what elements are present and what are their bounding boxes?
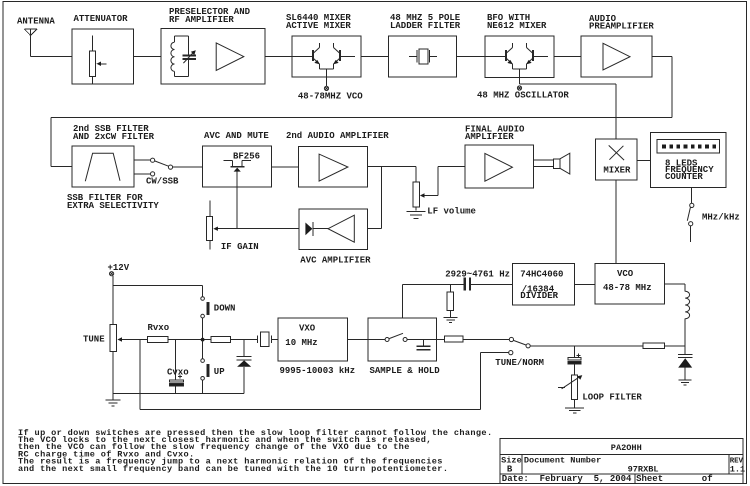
svg-text:VXO: VXO (299, 324, 316, 334)
LED segments 8 dots (662, 144, 716, 148)
svg-text:ACTIVE MIXER: ACTIVE MIXER (286, 21, 351, 31)
svg-text:DOWN: DOWN (214, 304, 236, 314)
capacitor Cvxo electrolytic (170, 375, 184, 394)
svg-text:AMPLIFIER: AMPLIFIER (465, 132, 514, 142)
wire mixer to frequency counter (637, 160, 651, 162)
wire VCO control line (530, 345, 643, 347)
switch S3 DOWN pushbutton (201, 297, 209, 318)
wire SSB filter CW output (134, 159, 150, 161)
wire R7 to TUNE/NORM switch (463, 339, 509, 341)
op-amp A5 triangle final amplifier (485, 153, 513, 181)
potentiometer R2 IF GAIN (206, 201, 237, 250)
2nd SSB filter and 2xCW filter box (72, 146, 134, 187)
varactor D1 (237, 340, 252, 394)
svg-text:Date: February 5, 2004: Date: February 5, 2004 (502, 474, 632, 484)
wire counter to MHz/kHz switch (691, 188, 693, 204)
wire AVC feedback branch (380, 167, 382, 229)
attenuator block box (72, 29, 134, 84)
VXO 10 MHz box (278, 318, 347, 361)
svg-text:B: B (507, 465, 513, 475)
wire 2nd amp output to LF volume (368, 167, 416, 182)
node junction dot UP/DOWN (201, 338, 205, 342)
inductor L1 (685, 291, 689, 318)
AVC amplifier box (299, 209, 368, 249)
svg-text:Rvxo: Rvxo (148, 323, 170, 333)
label 2nd SSB FILTER AND 2xCW FILTER (73, 124, 155, 142)
note text block (18, 428, 492, 474)
op-amp A3 triangle 2nd audio amplifier (319, 154, 348, 181)
svg-text:LOOP FILTER: LOOP FILTER (582, 393, 642, 403)
variable capacitor C-tank in preselector (183, 36, 196, 76)
svg-text:COUNTER: COUNTER (665, 172, 703, 182)
wire divider to VCO (575, 284, 595, 286)
wire BFO to audio preamplifier (554, 56, 581, 58)
svg-text:AVC AMPLIFIER: AVC AMPLIFIER (300, 256, 371, 266)
switch S2 MHz/kHz (687, 203, 694, 242)
48 MHz 5 pole ladder filter box (389, 36, 457, 77)
wire VXO to sample and hold (347, 339, 385, 341)
transistor Q3 left of NE612 pair (506, 43, 513, 69)
svg-text:10 MHz: 10 MHz (285, 338, 317, 348)
label AUDIO PREAMPLIFIER (589, 14, 654, 32)
potentiometer R-att inside attenuator (89, 36, 106, 84)
wire antenna to attenuator (31, 55, 72, 57)
wire SSB filter SSB output (134, 173, 150, 175)
label VXO 10 MHz (285, 324, 317, 349)
svg-text:9995-10003 kHz: 9995-10003 kHz (280, 366, 356, 376)
wire attenuator to preselector (134, 55, 162, 57)
op-amp A4 triangle AVC amplifier (328, 215, 354, 242)
label FINAL AUDIO AMPLIFIER (465, 125, 525, 143)
svg-text:VCO: VCO (617, 269, 634, 279)
switch S6 TUNE/NORM (509, 337, 531, 354)
wire S and H output (436, 339, 444, 341)
wire SL6440 to ladder filter (361, 55, 389, 57)
mixer U2 box (595, 139, 636, 180)
ground below R6 (444, 318, 458, 323)
transistor Q5 BF256 JFET (223, 161, 251, 188)
wire BF256 gate to IF gain (236, 187, 238, 229)
op-amp A1 triangle in preselector (216, 43, 244, 71)
potentiometer R3 LF volume (413, 182, 438, 211)
ground below loop filter (565, 408, 584, 413)
switch S5 sampling inside S and H (385, 333, 407, 341)
svg-text:TUNE/NORM: TUNE/NORM (495, 358, 544, 368)
label 48 MHZ 5 POLE LADDER FILTER (390, 13, 461, 31)
transistor Q4 right of NE612 pair (526, 43, 548, 69)
label BFO WITH NE612 MIXER (487, 13, 547, 31)
sample and hold box (368, 318, 437, 361)
svg-text:48-78MHZ VCO: 48-78MHZ VCO (298, 92, 363, 102)
preselector and RF amplifier box (161, 29, 265, 84)
resistor R5 (211, 337, 231, 343)
node 48-78MHZ VCO connector below SL6440 (324, 86, 328, 90)
divider 74HC4060 box (512, 263, 574, 305)
wire ground rail (113, 393, 244, 395)
wire +12V to DOWN switch (113, 285, 203, 296)
label VCO 48-78 MHz (603, 269, 652, 293)
antenna ANT1 (24, 29, 37, 56)
svg-text:2929~4761 Hz: 2929~4761 Hz (445, 270, 510, 280)
svg-text:MHz/kHz: MHz/kHz (702, 213, 740, 223)
wire ladder filter to BFO mixer (457, 55, 485, 57)
svg-text:LF volume: LF volume (427, 207, 476, 217)
filter response curve in SSB filter (85, 153, 120, 181)
wire emitter tie of SL6440 pair (320, 69, 334, 86)
op-amp A2 triangle in preamplifier (603, 43, 630, 70)
wire oscillator to counter mixer (520, 84, 617, 139)
wire Cvxo branch (175, 340, 177, 380)
switch S4 UP pushbutton (201, 340, 209, 394)
wire DOWN switch to junction (202, 318, 204, 340)
svg-text:NE612 MIXER: NE612 MIXER (487, 21, 547, 31)
svg-text:ANTENNA: ANTENNA (17, 17, 55, 27)
resistor R8 (643, 343, 665, 349)
wire IF gain node to AVC amplifier (237, 228, 299, 230)
wire preamplifier output to SSB filter input (51, 57, 672, 167)
svg-text:SAMPLE & HOLD: SAMPLE & HOLD (370, 366, 441, 376)
wire R8 to varactor node (665, 345, 686, 347)
svg-text:and the next small frequency b: and the next small frequency band can be… (18, 464, 448, 474)
AVC and mute box (203, 146, 272, 187)
svg-text:DIVIDER: DIVIDER (520, 291, 558, 301)
audio preamplifier box (581, 36, 652, 77)
wire AVC amplifier to feedback branch (368, 228, 382, 230)
inductor L-tank in preselector (171, 36, 189, 76)
label 8 LEDS FREQUENCY COUNTER (665, 158, 714, 182)
node 48 MHZ OSCILLATOR connector below BFO (517, 86, 521, 90)
transistor Q1 left of SL6440 pair (313, 43, 320, 69)
svg-text:AND 2xCW FILTER: AND 2xCW FILTER (73, 132, 155, 142)
svg-text:MIXER: MIXER (603, 166, 631, 176)
svg-text:IF GAIN: IF GAIN (221, 242, 259, 252)
svg-text:Cvxo: Cvxo (167, 368, 189, 378)
label SSB FILTER FOR EXTRA SELECTIVITY (67, 193, 159, 211)
ground below varactor D2 (679, 380, 692, 385)
VCO 48-78 MHz box (595, 263, 665, 304)
capacitor C-hold (407, 340, 436, 350)
title block (500, 439, 743, 484)
svg-text:LADDER FILTER: LADDER FILTER (390, 21, 461, 31)
resistor R7 loop (445, 336, 464, 342)
svg-text:AVC AND MUTE: AVC AND MUTE (204, 131, 269, 141)
wire Rvxo to junction and resistor R5 (168, 339, 211, 341)
wire preselector to SL6440 mixer (265, 55, 313, 57)
crystal Y1 in ladder filter (409, 49, 437, 64)
wire LF volume wiper to final amplifier (438, 167, 465, 196)
wire switch to AVC and mute (173, 166, 203, 168)
final audio amplifier box (465, 145, 533, 188)
svg-text:EXTRA SELECTIVITY: EXTRA SELECTIVITY (67, 201, 159, 211)
wire VCO output to inductor (665, 284, 686, 291)
svg-text:97RXBL: 97RXBL (628, 465, 659, 475)
wire TUNE direct path (140, 340, 509, 410)
switch S1 CW/SSB (151, 158, 173, 176)
potentiometer R4 TUNE (110, 325, 148, 394)
wire mixer to VCO (615, 180, 617, 263)
label SL6440 MIXER ACTIVE MIXER (286, 13, 351, 31)
label 74HC4060 /16384 DIVIDER (520, 270, 563, 302)
capacitor C2 coupling (465, 277, 513, 290)
resistor Rvxo (148, 337, 168, 343)
crystal X1 VXO (258, 332, 279, 346)
svg-text:ATTENUATOR: ATTENUATOR (74, 14, 129, 24)
svg-text:PREAMPLIFIER: PREAMPLIFIER (589, 22, 654, 32)
svg-text:of: of (702, 474, 713, 484)
title block texts (501, 443, 745, 484)
wire emitter tie of NE612 pair (513, 69, 527, 84)
svg-text:PA2OHH: PA2OHH (611, 443, 642, 453)
svg-text:2nd AUDIO AMPLIFIER: 2nd AUDIO AMPLIFIER (286, 131, 389, 141)
svg-text:1.1: 1.1 (730, 465, 745, 475)
frequency counter box (651, 133, 727, 188)
capacitor C3 loop filter electrolytic (568, 346, 581, 375)
label PRESELECTOR AND RF AMPLIFIER (169, 7, 251, 25)
svg-text:48-78 MHz: 48-78 MHz (603, 283, 652, 293)
LED display window (657, 140, 719, 153)
wire into NE612 base (485, 55, 506, 57)
varactor D2 (678, 354, 693, 379)
ground below LF volume (406, 212, 425, 219)
svg-text:74HC4060: 74HC4060 (520, 270, 563, 280)
wire +12V rail down (112, 276, 114, 325)
trimmer R9 loop filter (558, 375, 582, 408)
BFO with NE612 mixer box (485, 36, 554, 77)
svg-text:RF AMPLIFIER: RF AMPLIFIER (169, 15, 234, 25)
svg-text:CW/SSB: CW/SSB (146, 177, 179, 187)
wire S and H divider input (402, 285, 463, 319)
mixer X symbol (609, 145, 624, 160)
svg-text:UP: UP (214, 367, 225, 377)
svg-text:+12V: +12V (108, 263, 130, 273)
node +12V power connector (110, 272, 114, 276)
ground below TUNE (105, 394, 120, 406)
svg-text:Document Number: Document Number (524, 456, 601, 466)
svg-text:48 MHZ OSCILLATOR: 48 MHZ OSCILLATOR (477, 91, 569, 101)
wire AVC to 2nd audio amplifier (272, 166, 299, 168)
svg-text:Sheet: Sheet (636, 474, 663, 484)
transistor Q2 right of SL6440 pair (333, 43, 355, 69)
speaker LS1 (533, 153, 569, 174)
wire inductor to control line (684, 319, 686, 355)
diode D3 in AVC amplifier (305, 222, 328, 236)
2nd audio amplifier box (299, 146, 368, 186)
SL6440 active mixer box (292, 36, 361, 77)
wire R5 to crystal node (231, 339, 258, 341)
resistor R6 to ground (447, 285, 454, 318)
svg-text:TUNE: TUNE (83, 335, 105, 345)
